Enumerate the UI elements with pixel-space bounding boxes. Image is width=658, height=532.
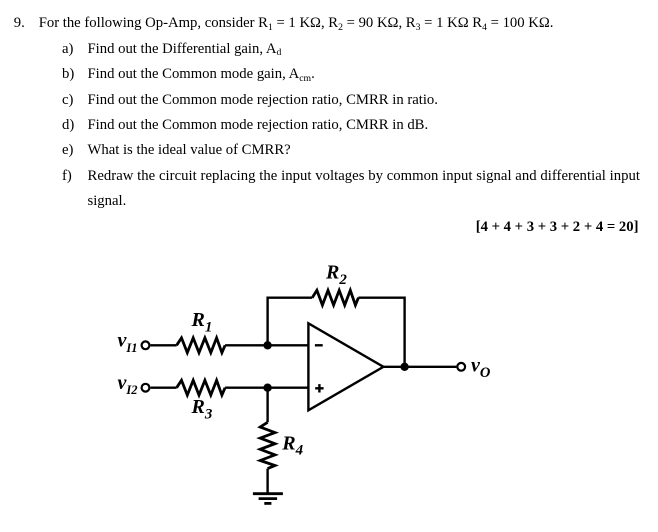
svg-text:R2: R2: [325, 262, 347, 288]
svg-text:vI2: vI2: [118, 372, 138, 397]
svg-text:vI1: vI1: [118, 330, 138, 355]
svg-text:R1: R1: [191, 309, 213, 335]
svg-text:R3: R3: [191, 396, 213, 422]
svg-text:vO: vO: [471, 354, 491, 381]
svg-text:R4: R4: [281, 433, 303, 459]
